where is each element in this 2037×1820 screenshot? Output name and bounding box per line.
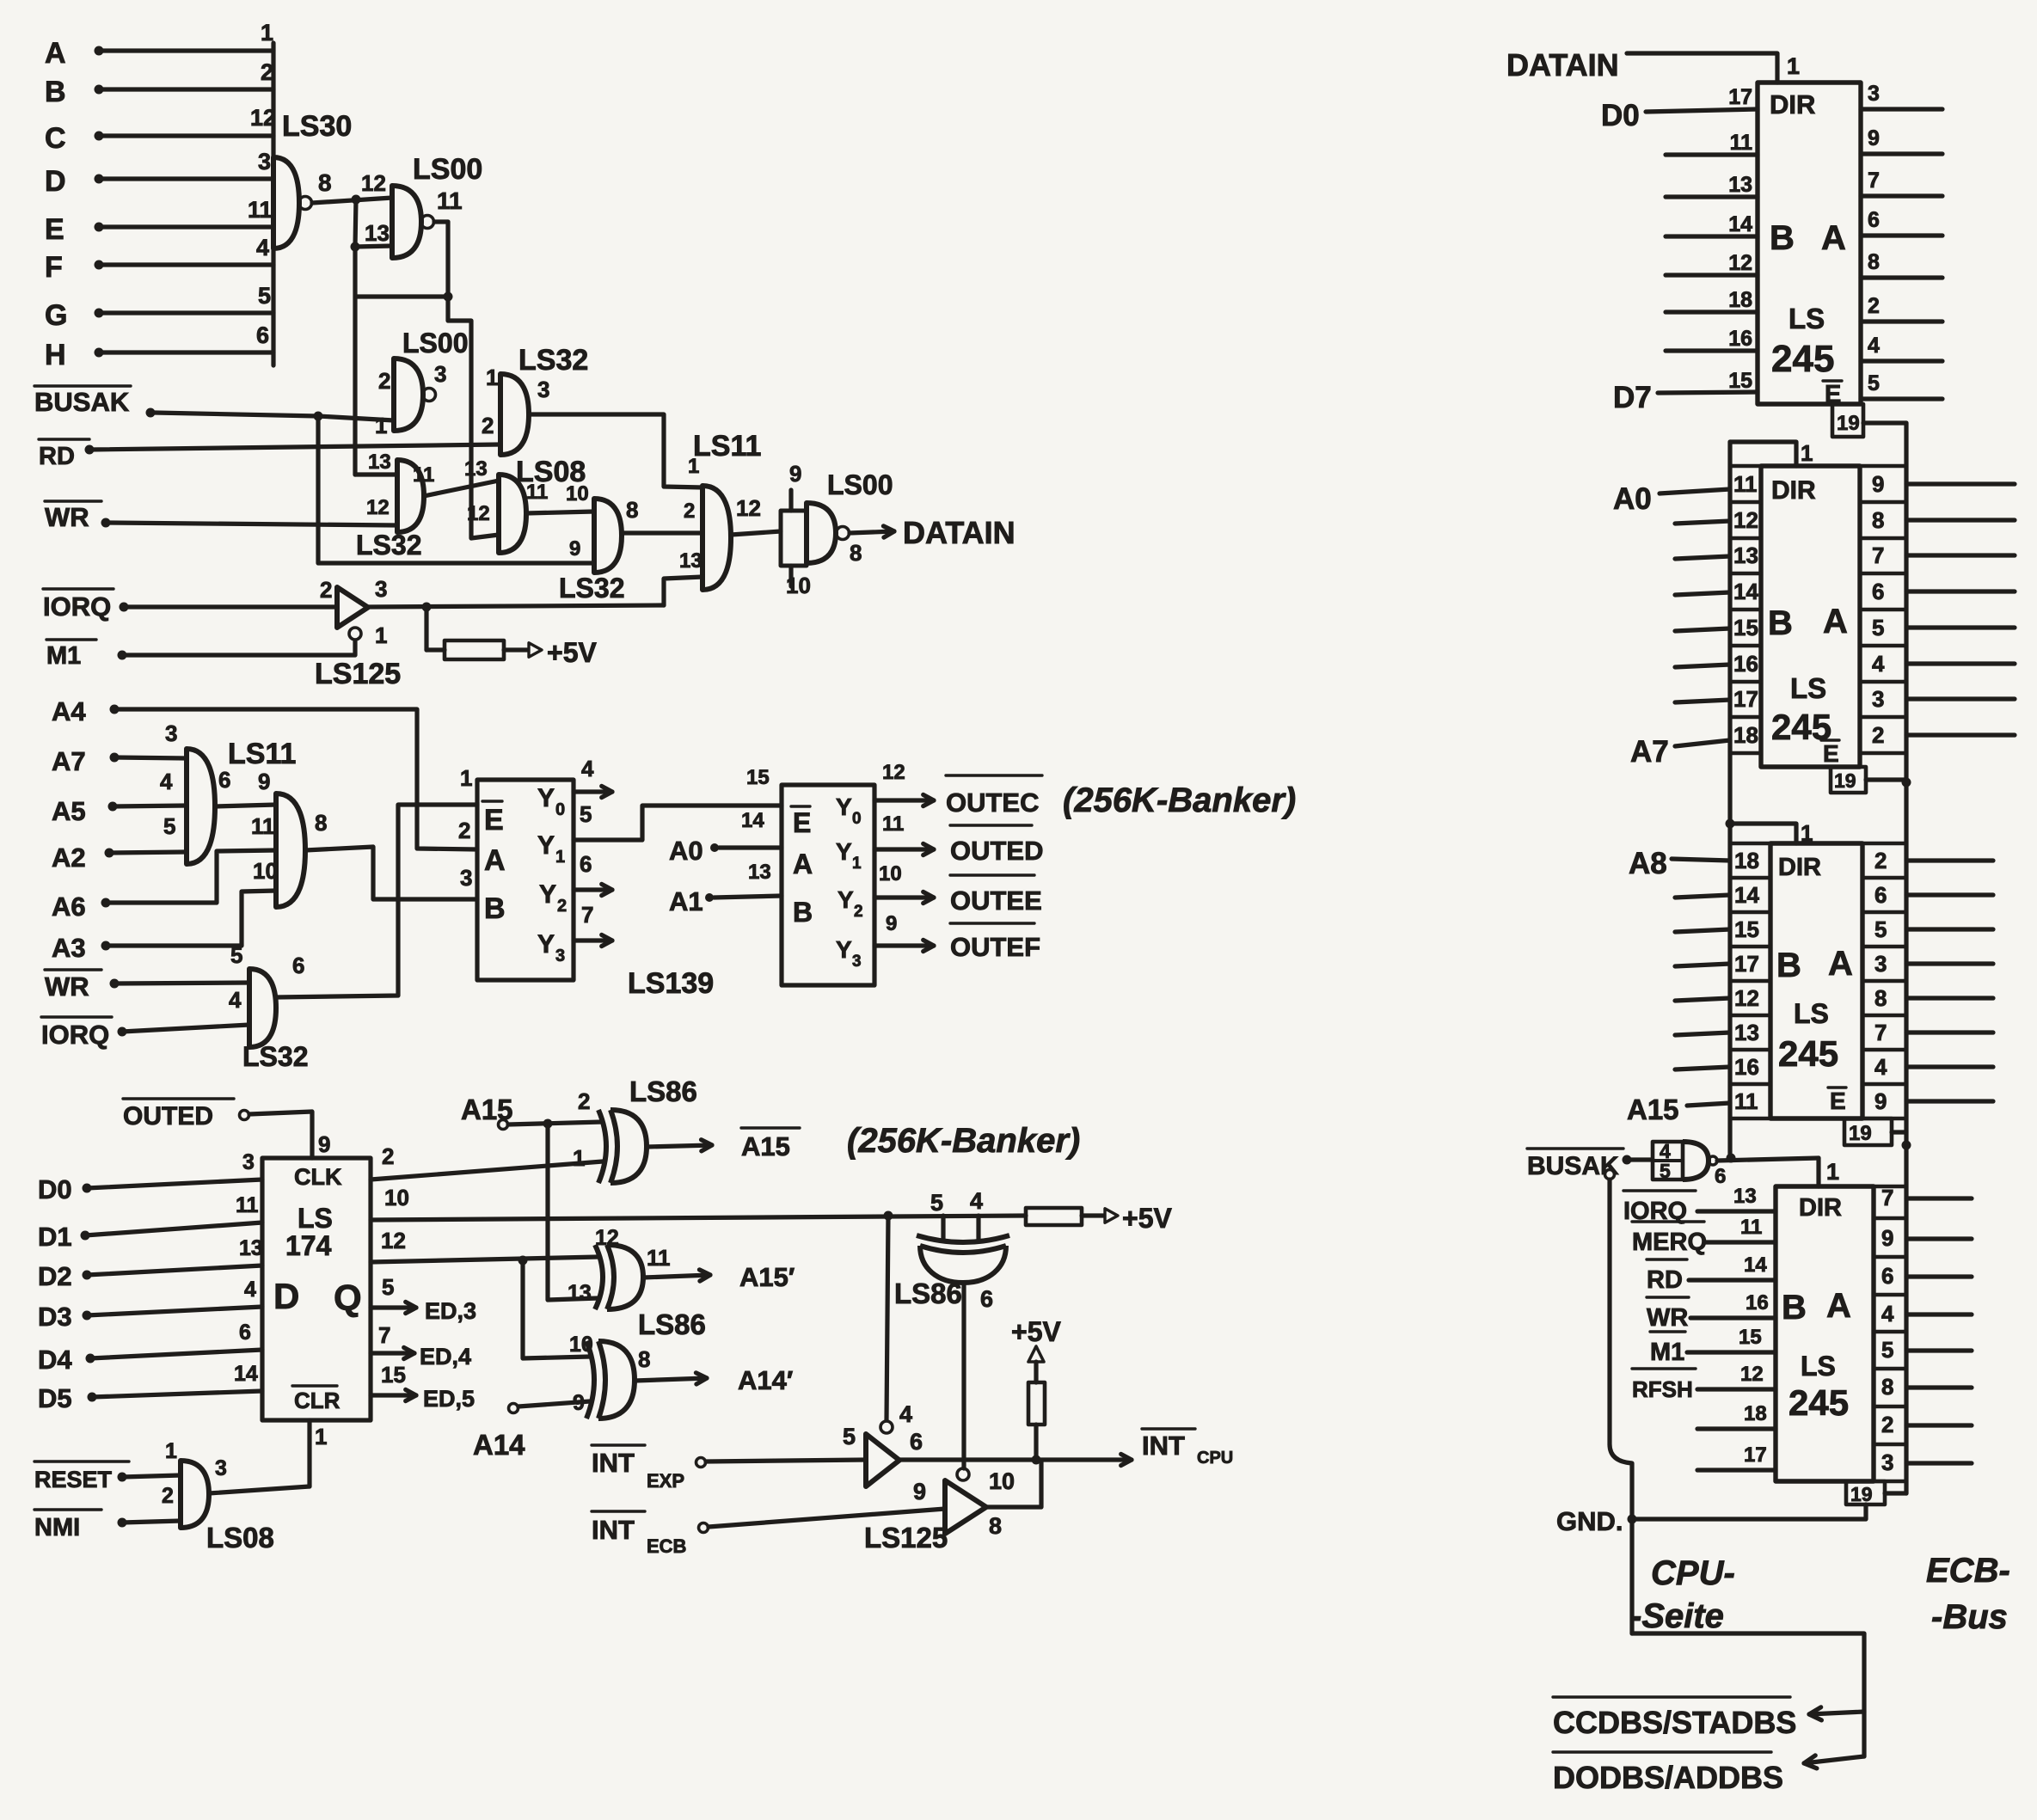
- svg-text:4: 4: [229, 987, 242, 1013]
- svg-text:D: D: [273, 1276, 299, 1316]
- svg-text:5: 5: [163, 813, 175, 839]
- svg-text:CPU: CPU: [1197, 1449, 1233, 1468]
- svg-text:15: 15: [1733, 615, 1758, 640]
- wire LS245d A row 0 to ECB: [1906, 1196, 1972, 1200]
- node A7 (input): [52, 720, 187, 776]
- svg-text:6: 6: [292, 953, 304, 978]
- svg-text:19: 19: [1849, 1122, 1872, 1145]
- svg-text:LS00: LS00: [827, 469, 893, 500]
- wire LS245d A row 4 to ECB: [1906, 1348, 1972, 1352]
- wire BUSAK gate out to LS245d pin 1 DIR: [1717, 1154, 1839, 1187]
- svg-text:-Seite: -Seite: [1630, 1597, 1724, 1635]
- svg-text:BUSAK: BUSAK: [34, 387, 130, 417]
- svg-text:B: B: [45, 76, 66, 108]
- svg-text:WR: WR: [1647, 1304, 1688, 1332]
- pin 2 LS245a / wire to ECB: [1861, 294, 1942, 322]
- svg-text:13: 13: [365, 220, 390, 246]
- svg-text:RFSH: RFSH: [1632, 1376, 1693, 1402]
- svg-text:16: 16: [1734, 1054, 1759, 1080]
- svg-text:A7: A7: [1630, 735, 1669, 769]
- pin 7 LS245a / wire to ECB: [1861, 169, 1942, 196]
- wire LS245d B row 17: [1697, 1443, 1776, 1470]
- node MERQ (input to LS245d): [1632, 1216, 1776, 1256]
- gate LS00 b (NAND, pins 2,1 -> 3): [375, 328, 468, 438]
- node D0 (input): [1601, 99, 1758, 132]
- svg-text:A0: A0: [1613, 482, 1652, 516]
- svg-text:1: 1: [1787, 53, 1800, 79]
- svg-text:(256K-Banker): (256K-Banker): [1063, 781, 1296, 819]
- svg-text:DIR: DIR: [1778, 854, 1821, 881]
- node A15-bar output: [647, 1128, 800, 1161]
- svg-text:13: 13: [1733, 1185, 1757, 1208]
- svg-text:CLR: CLR: [294, 1388, 341, 1413]
- svg-text:1: 1: [1801, 440, 1813, 466]
- wire LS245c A row 7 to ECB: [1906, 1099, 1993, 1103]
- wire LS174 Q0 pin 2 to LS86a pin 1: [371, 1143, 603, 1180]
- node RD (input to LS245d): [1647, 1253, 1776, 1294]
- svg-text:6: 6: [256, 322, 269, 348]
- svg-text:15: 15: [1734, 916, 1759, 942]
- node WR (input to LS245d): [1647, 1291, 1776, 1332]
- svg-text:9: 9: [1874, 1088, 1887, 1114]
- node OUTEC (output): [874, 775, 1042, 818]
- wire LS245a B pin 11: [1666, 152, 1758, 156]
- node A14' output: [635, 1346, 793, 1395]
- svg-text:12: 12: [1733, 507, 1758, 533]
- svg-text:LS125: LS125: [864, 1522, 948, 1553]
- wire Q1 junction down to LS125b enable bubble: [887, 1216, 888, 1420]
- pin 19 LS245b: [1831, 767, 1911, 793]
- pin boxes right LS245d: [1874, 1185, 1906, 1481]
- svg-text:3: 3: [537, 377, 549, 402]
- wire LS245d A row 7 to ECB: [1906, 1461, 1972, 1465]
- node C (input wire to LS30): [45, 105, 276, 155]
- gate LS86 d (XOR drawn pointing down, pins 5,4 -> 6): [894, 1188, 1009, 1312]
- gate LS30 (8-input NAND): [273, 110, 352, 248]
- wire enable chain vertical (all pin 19 / E): [1904, 423, 1908, 1493]
- svg-text:5: 5: [1868, 371, 1880, 395]
- svg-text:A5: A5: [52, 796, 86, 826]
- svg-text:RD: RD: [1647, 1266, 1683, 1294]
- node INTEXP (input): [592, 1445, 866, 1492]
- svg-text:LS32: LS32: [518, 344, 588, 377]
- node CCDBS/STADBS (output arrow): [1553, 1697, 1864, 1740]
- svg-text:A4: A4: [52, 696, 86, 726]
- gate LS32 c (OR, pins 10,9 -> 8): [559, 482, 638, 604]
- svg-text:Y: Y: [836, 838, 852, 865]
- wire IORQ buffered to LS11c pin 13: [368, 577, 703, 612]
- svg-text:OUTEF: OUTEF: [950, 932, 1040, 962]
- svg-text:M1: M1: [1650, 1339, 1684, 1366]
- svg-text:19: 19: [1837, 412, 1860, 435]
- node A1 (input): [669, 861, 782, 916]
- pin 19 LS245d to GND: [1632, 1481, 1906, 1519]
- buffer LS125 c (INTECB, pins 9->8, enable 10): [864, 1468, 1015, 1553]
- svg-text:LS08: LS08: [206, 1522, 274, 1553]
- svg-text:8: 8: [1874, 985, 1887, 1011]
- svg-text:9: 9: [1881, 1225, 1893, 1251]
- node D (input wire to LS30): [45, 149, 273, 198]
- wire LS11c out to LS00d: [731, 531, 781, 535]
- svg-text:5: 5: [580, 801, 592, 827]
- node D1 (input to LS174): [38, 1193, 262, 1252]
- wire LS139a Y1 to LS139b pin E 15: [574, 806, 782, 840]
- svg-text:ED,5: ED,5: [423, 1386, 475, 1412]
- pin 6 LS245a / wire to ECB: [1861, 208, 1942, 236]
- svg-text:16: 16: [1746, 1291, 1769, 1314]
- node INTCPU (output): [1036, 1429, 1233, 1468]
- svg-text:10: 10: [569, 1333, 593, 1357]
- wire LS174 Q1 pin 10 to pull-up and LS125b gate: [371, 1185, 1026, 1221]
- wire LS245c B row 5: [1675, 1033, 1730, 1035]
- wire LS245b B row 2: [1675, 556, 1730, 559]
- svg-text:1: 1: [1801, 820, 1813, 846]
- svg-text:2: 2: [854, 903, 863, 921]
- wire LS125c out 8 up to INT line: [986, 1462, 1041, 1507]
- svg-text:OUTED: OUTED: [950, 836, 1044, 866]
- wire LS245d A row 1 to ECB: [1906, 1236, 1972, 1241]
- wire LS245b A row 6 to ECB: [1906, 696, 2015, 701]
- gate LS32 b (OR, pins 13,12 -> 11): [355, 450, 434, 561]
- svg-text:D3: D3: [38, 1302, 72, 1332]
- gate LS32 a (OR, pins 1,2 -> 3): [482, 344, 588, 455]
- node DATAIN (to LS245 a DIR): [1506, 47, 1800, 83]
- svg-text:Y: Y: [539, 880, 556, 909]
- svg-text:12: 12: [361, 170, 386, 196]
- svg-text:6: 6: [910, 1429, 923, 1455]
- svg-text:Y: Y: [537, 831, 555, 860]
- svg-text:1: 1: [486, 365, 498, 390]
- svg-text:F: F: [45, 251, 63, 284]
- buffer LS125 a (IORQ, pins 2->3, enable 1): [315, 576, 401, 690]
- svg-text:18: 18: [1734, 848, 1759, 873]
- gate LS08 a (AND, pins 13,12 -> 11): [464, 456, 586, 553]
- svg-text:4: 4: [256, 235, 269, 260]
- svg-text:LS30: LS30: [282, 110, 352, 143]
- svg-text:ECB-: ECB-: [1926, 1552, 2010, 1590]
- svg-text:11: 11: [437, 187, 463, 214]
- wire LS245d A row 3 to ECB: [1906, 1312, 1972, 1316]
- svg-text:D7: D7: [1613, 381, 1652, 414]
- node M1 (input): [46, 640, 355, 670]
- node RD (input): [39, 439, 500, 470]
- node GND: [1556, 1506, 1637, 1536]
- svg-text:12: 12: [381, 1228, 406, 1253]
- svg-text:D4: D4: [38, 1345, 72, 1375]
- node D2 (input to LS174): [38, 1236, 263, 1291]
- svg-text:17: 17: [1744, 1443, 1767, 1467]
- node A (input wire to LS30): [45, 20, 273, 70]
- node WR (input): [45, 501, 397, 532]
- svg-text:13: 13: [368, 450, 391, 474]
- svg-text:4: 4: [970, 1188, 983, 1214]
- svg-text:A: A: [1821, 219, 1846, 257]
- node A0 (input): [669, 809, 782, 866]
- wire LS245b A row 1 to ECB: [1906, 518, 2015, 522]
- node D7 (input): [1613, 381, 1758, 414]
- svg-text:7: 7: [1874, 1020, 1887, 1045]
- wire LS32c out to LS11 pin 2: [622, 530, 703, 535]
- svg-text:D0: D0: [1601, 99, 1640, 132]
- svg-text:ECB: ECB: [647, 1535, 686, 1557]
- svg-text:Y: Y: [537, 930, 555, 959]
- node A2 (input): [52, 813, 187, 873]
- svg-text:11: 11: [1734, 1088, 1758, 1114]
- svg-text:LS00: LS00: [413, 153, 482, 186]
- svg-text:E: E: [484, 804, 504, 836]
- wire LS245b B row 3: [1675, 592, 1730, 595]
- svg-text:8: 8: [850, 540, 862, 566]
- wire LS245d B row 18: [1697, 1402, 1776, 1429]
- wire LS08a out to LS32c pin 10: [526, 512, 594, 513]
- svg-text:12: 12: [1728, 251, 1752, 275]
- svg-text:(256K-Banker): (256K-Banker): [847, 1122, 1080, 1160]
- svg-text:DODBS/ADDBS: DODBS/ADDBS: [1553, 1760, 1783, 1795]
- wire INT to CPU junctionline: [899, 1455, 1041, 1465]
- wire LS245c pin 1 DIR loop: [1726, 819, 1813, 847]
- svg-text:8: 8: [315, 810, 327, 836]
- svg-text:2: 2: [578, 1088, 590, 1114]
- svg-text:IORQ: IORQ: [41, 1020, 109, 1050]
- wire LS245b B row 5: [1675, 665, 1730, 667]
- svg-text:10: 10: [879, 862, 902, 885]
- svg-text:LS11: LS11: [228, 738, 296, 770]
- svg-text:11: 11: [1740, 1216, 1762, 1239]
- svg-text:17: 17: [1734, 951, 1759, 977]
- svg-text:3: 3: [1872, 686, 1884, 712]
- svg-text:1: 1: [375, 413, 387, 438]
- svg-text:CPU-: CPU-: [1651, 1554, 1735, 1592]
- svg-text:LS: LS: [1789, 303, 1825, 334]
- svg-text:6: 6: [580, 851, 592, 877]
- wire LS245c B row 4: [1675, 998, 1730, 1001]
- wire DIR chain vertical (LS245 b,c,d pin 1): [1727, 442, 1732, 1158]
- node A4 (input): [52, 696, 477, 849]
- svg-text:3: 3: [242, 1150, 255, 1174]
- svg-text:1: 1: [555, 848, 565, 867]
- svg-text:A2: A2: [52, 843, 86, 873]
- svg-text:2: 2: [1881, 1412, 1893, 1437]
- svg-text:0: 0: [555, 800, 565, 819]
- svg-text:3: 3: [460, 865, 472, 891]
- svg-text:A: A: [793, 849, 813, 879]
- node A3 (input): [52, 858, 278, 963]
- svg-text:3: 3: [215, 1456, 227, 1480]
- pin 9 LS245a / wire to ECB: [1861, 126, 1942, 154]
- svg-text:2: 2: [1874, 848, 1887, 873]
- wire LS245b A row 0 to ECB: [1906, 481, 2015, 486]
- svg-text:CLK: CLK: [294, 1164, 342, 1190]
- svg-text:245: 245: [1771, 338, 1834, 380]
- pin boxes right LS245b: [1860, 466, 1906, 753]
- svg-text:OUTED: OUTED: [123, 1102, 213, 1131]
- svg-text:2: 2: [382, 1143, 394, 1169]
- svg-text:LS86: LS86: [894, 1278, 962, 1309]
- svg-text:EXP: EXP: [647, 1470, 684, 1492]
- wire LS245b A row 7 to ECB: [1906, 732, 2015, 737]
- svg-text:15: 15: [1728, 369, 1752, 393]
- gate LS00 a (NAND, pins 12,13 -> 11): [361, 153, 482, 258]
- svg-text:7: 7: [378, 1322, 390, 1348]
- svg-text:10: 10: [989, 1468, 1015, 1494]
- svg-text:A8: A8: [1629, 847, 1667, 880]
- svg-text:MERQ: MERQ: [1632, 1229, 1707, 1256]
- svg-text:12: 12: [736, 495, 761, 521]
- svg-text:A: A: [45, 37, 66, 70]
- resistor R3 vertical pull-up +5V on INT line: [1011, 1316, 1061, 1460]
- svg-text:19: 19: [1850, 1483, 1873, 1505]
- svg-text:11: 11: [236, 1193, 259, 1217]
- buffer LS245 a (data bus): [1758, 83, 1861, 408]
- node ED,3 (output): [371, 1274, 476, 1324]
- wire LS139a Y2 arrow: [574, 887, 612, 892]
- svg-text:11: 11: [248, 197, 273, 223]
- svg-text:ED,4: ED,4: [420, 1344, 471, 1370]
- wire LS174 Q2 pin 12 to LS86b pin 12 and LS86c pin 10: [371, 1228, 598, 1358]
- svg-text:18: 18: [1733, 722, 1758, 748]
- svg-text:9: 9: [913, 1479, 926, 1504]
- wire LS245d A row 2 to ECB: [1906, 1274, 1972, 1278]
- wire LS245a B pin 13: [1666, 194, 1758, 199]
- svg-text:B: B: [484, 892, 506, 925]
- node D3 (input to LS174): [38, 1278, 262, 1332]
- node OUTEF (output): [874, 923, 1040, 962]
- wire LS245b B row 6: [1675, 700, 1730, 702]
- svg-text:LS32: LS32: [356, 530, 421, 561]
- pin 19 LS245a (E) to enable chain: [1832, 404, 1906, 437]
- svg-text:5: 5: [843, 1424, 856, 1449]
- svg-text:2: 2: [1868, 294, 1880, 318]
- svg-text:2: 2: [378, 368, 390, 394]
- svg-text:5: 5: [1881, 1337, 1893, 1363]
- wire LS174 CLR pin 1 to LS08b output: [209, 1420, 327, 1493]
- svg-text:E: E: [1823, 740, 1839, 767]
- svg-text:3: 3: [165, 720, 177, 746]
- pin boxes left LS245b: [1730, 466, 1761, 753]
- svg-text:LS00: LS00: [402, 328, 468, 358]
- node A15' output: [643, 1245, 795, 1292]
- svg-text:B: B: [1782, 1289, 1807, 1327]
- wire LS245c B row 3: [1675, 964, 1730, 966]
- svg-text:10: 10: [786, 573, 811, 598]
- svg-text:14: 14: [1744, 1253, 1767, 1277]
- svg-text:14: 14: [741, 809, 764, 832]
- node RFSH (input to LS245d): [1632, 1363, 1776, 1402]
- svg-text:Y: Y: [537, 784, 555, 812]
- svg-text:8: 8: [638, 1346, 650, 1372]
- node A7 (input to LS245b): [1630, 735, 1730, 769]
- pin boxes left LS245c: [1730, 843, 1770, 1118]
- node RESET (input): [34, 1439, 181, 1492]
- svg-text:DATAIN: DATAIN: [1506, 47, 1619, 83]
- svg-text:16: 16: [1728, 327, 1752, 351]
- node INTECB (input): [592, 1509, 945, 1557]
- node IORQ (input to LS245d): [1623, 1185, 1776, 1225]
- node M1 (input to LS245d): [1650, 1326, 1776, 1366]
- svg-text:9: 9: [318, 1131, 330, 1157]
- gate LS08 c (BUSAK buffer, pins 4,5 -> 6): [1653, 1140, 1726, 1188]
- svg-text:5: 5: [1660, 1160, 1671, 1182]
- svg-text:4: 4: [899, 1401, 912, 1427]
- wire LS245a B pin 14: [1666, 234, 1758, 238]
- svg-text:1: 1: [573, 1145, 585, 1171]
- wire LS11b out 8 to LS139a pin B: [305, 847, 477, 899]
- svg-text:15: 15: [746, 766, 770, 789]
- node B (input wire to LS30): [45, 59, 273, 108]
- svg-text:4: 4: [160, 769, 173, 794]
- svg-text:6: 6: [218, 767, 230, 793]
- svg-text:1: 1: [261, 20, 273, 46]
- svg-text:DATAIN: DATAIN: [903, 515, 1015, 550]
- wire LS245b A row 4 to ECB: [1906, 625, 2015, 629]
- svg-text:14: 14: [234, 1362, 258, 1386]
- svg-text:3: 3: [1868, 82, 1880, 106]
- svg-text:Y: Y: [836, 794, 852, 820]
- svg-text:A3: A3: [52, 933, 86, 963]
- svg-text:D0: D0: [38, 1174, 72, 1204]
- decoder LS139 a (first half): [458, 756, 714, 1000]
- node H (input wire to LS30): [45, 322, 273, 371]
- svg-text:6: 6: [1881, 1263, 1893, 1289]
- svg-text:WR: WR: [45, 971, 89, 1002]
- svg-text:D: D: [45, 165, 66, 198]
- svg-text:11: 11: [413, 463, 434, 487]
- svg-text:5: 5: [382, 1274, 394, 1300]
- node F (input wire to LS30): [45, 235, 273, 284]
- wire LS245c B row 6: [1675, 1067, 1730, 1069]
- svg-text:DIR: DIR: [1771, 476, 1816, 505]
- svg-text:E: E: [45, 213, 64, 246]
- svg-text:INT: INT: [1142, 1431, 1185, 1461]
- svg-text:6: 6: [980, 1286, 993, 1312]
- svg-text:2: 2: [557, 897, 567, 916]
- svg-text:13: 13: [679, 549, 703, 573]
- svg-text:15: 15: [381, 1362, 406, 1388]
- svg-text:C: C: [45, 122, 66, 155]
- svg-text:245: 245: [1789, 1382, 1849, 1423]
- svg-text:E: E: [793, 807, 811, 838]
- svg-text:5: 5: [930, 1190, 943, 1216]
- pin 4 LS245a / wire to ECB: [1861, 334, 1942, 361]
- node D0 (input to LS174): [38, 1150, 262, 1204]
- svg-text:3: 3: [375, 576, 387, 602]
- wire LS245c A row 0 to ECB: [1906, 858, 1993, 862]
- node A6 (input): [52, 813, 276, 922]
- node DODBS/ADDBS (output arrow): [1553, 1752, 1864, 1795]
- svg-text:3: 3: [1881, 1449, 1893, 1475]
- svg-text:9: 9: [1868, 126, 1880, 150]
- svg-text:11: 11: [1730, 131, 1753, 155]
- svg-text:13: 13: [1734, 1020, 1759, 1045]
- wire LS245a B pin 12: [1666, 273, 1758, 277]
- wire LS32a output to LS11 pin 1: [529, 414, 703, 487]
- wire BUSAK to LS00b pin1 and LS32c pin 9: [314, 412, 595, 564]
- wire LS245d A row 6 to ECB: [1906, 1423, 1972, 1427]
- svg-text:LS139: LS139: [628, 967, 714, 1000]
- wire LS245b A row 3 to ECB: [1906, 589, 2015, 593]
- svg-text:3: 3: [1874, 951, 1887, 977]
- gate LS11 c (3-input AND, pins 1,2,13 -> 12): [679, 430, 761, 590]
- svg-text:11: 11: [251, 813, 275, 839]
- svg-text:-Bus: -Bus: [1931, 1598, 2008, 1636]
- wire LS245c A row 6 to ECB: [1906, 1064, 1993, 1069]
- svg-text:245: 245: [1778, 1033, 1838, 1074]
- wire LS245c A row 5 to ECB: [1906, 1030, 1993, 1034]
- svg-text:DIR: DIR: [1799, 1194, 1842, 1222]
- svg-text:3: 3: [852, 953, 862, 971]
- wire LS245b A row 2 to ECB: [1906, 553, 2015, 557]
- svg-text:1: 1: [165, 1439, 177, 1463]
